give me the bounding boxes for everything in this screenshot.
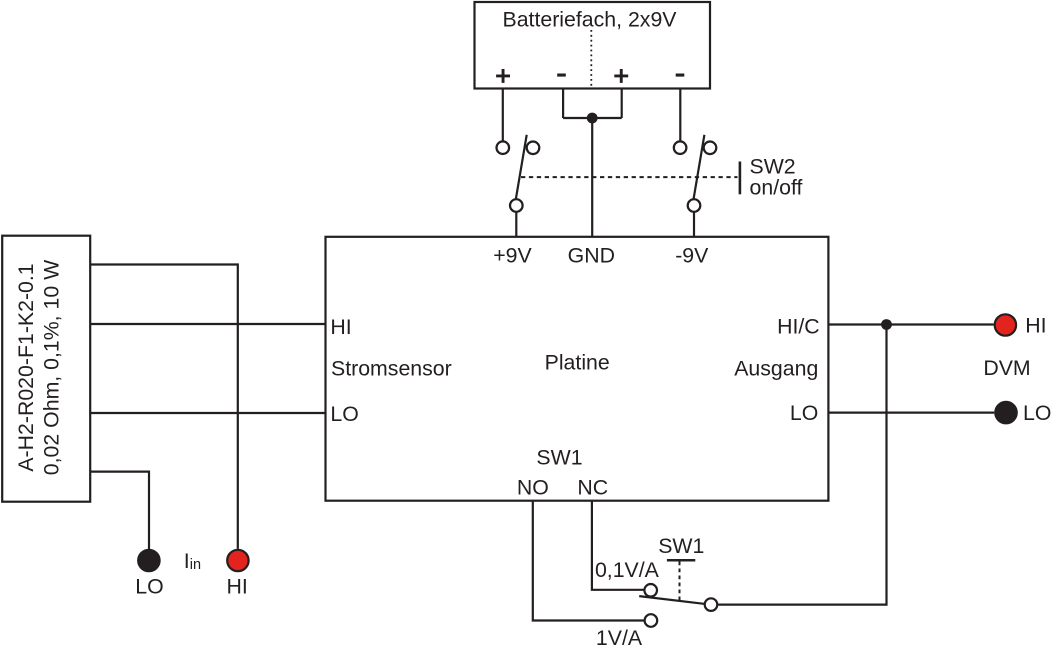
SW1 actuator bar <box>667 559 695 562</box>
wire resistor sense LO to Platine <box>90 412 325 414</box>
svg-text:NC: NC <box>577 475 608 499</box>
svg-text:LO: LO <box>135 574 163 598</box>
battery plus mark 1 <box>496 69 510 83</box>
svg-text:1V/A: 1V/A <box>596 626 643 647</box>
switch SW1 NO contact <box>645 614 658 627</box>
svg-text:SW1: SW1 <box>658 534 704 558</box>
svg-text:LO: LO <box>790 401 818 425</box>
svg-text:A-H2-R020-F1-K2-0.1: A-H2-R020-F1-K2-0.1 <box>14 263 38 471</box>
wire GND <box>591 118 593 237</box>
battery box Batteriefach <box>475 2 711 89</box>
svg-text:HI/C: HI/C <box>777 315 820 339</box>
SW2 linkage dashed line <box>521 176 738 178</box>
wire Platine NC pin down <box>592 501 645 590</box>
wire SW2 pole B to -9V pin <box>693 212 695 237</box>
svg-text:Batteriefach, 2x9V: Batteriefach, 2x9V <box>502 7 677 31</box>
wire battery +9V terminal <box>502 89 504 142</box>
svg-text:LO: LO <box>1023 401 1051 425</box>
switch SW1 common pivot <box>705 598 718 611</box>
SW2 actuator bar <box>739 162 742 195</box>
wire resistor current bottom <box>90 472 149 549</box>
terminal HI DVM red <box>995 314 1016 335</box>
svg-text:Iin: Iin <box>184 549 201 573</box>
svg-text:DVM: DVM <box>983 356 1030 380</box>
switch SW2 pole B pivot <box>688 199 701 212</box>
terminal LO input black <box>138 550 159 571</box>
wire Platine HI/C to DVM HI <box>828 323 993 325</box>
wire junction to SW1 common <box>718 325 886 605</box>
wire Platine LO to DVM LO <box>828 412 994 414</box>
svg-text:0,02 Ohm, 0,1%, 10 W: 0,02 Ohm, 0,1%, 10 W <box>39 259 63 475</box>
wire battery minus terminal 1 <box>562 89 564 119</box>
wire battery plus terminal 2 <box>621 89 623 119</box>
battery minus mark 1 <box>557 74 566 77</box>
battery divider dotted line <box>590 30 592 87</box>
switch SW2 pole A left contact <box>497 141 510 154</box>
switch SW2 pole B left contact <box>674 141 687 154</box>
switch SW2 pole A pivot <box>510 199 523 212</box>
svg-text:Stromsensor: Stromsensor <box>331 357 452 381</box>
svg-text:Ausgang: Ausgang <box>734 357 818 381</box>
svg-text:HI: HI <box>1025 314 1046 338</box>
battery plus mark 2 <box>614 69 628 83</box>
svg-text:-9V: -9V <box>675 244 709 268</box>
switch SW1 arm <box>639 596 704 604</box>
wire SW2 pole A to +9V pin <box>515 212 517 237</box>
wire resistor current top <box>90 265 238 549</box>
svg-text:HI: HI <box>226 574 247 598</box>
wire resistor sense HI to Platine <box>90 323 325 325</box>
svg-text:NO: NO <box>517 475 549 499</box>
svg-text:+9V: +9V <box>493 244 532 268</box>
wire battery center link <box>563 117 622 119</box>
Platine box <box>326 237 829 501</box>
terminal LO DVM black <box>995 402 1016 423</box>
terminal HI input red <box>227 550 248 571</box>
switch SW2 pole A arm <box>516 135 527 199</box>
svg-text:GND: GND <box>568 244 615 268</box>
svg-text:Platine: Platine <box>545 351 610 375</box>
svg-text:0,1V/A: 0,1V/A <box>595 558 660 582</box>
wire Platine NO pin down <box>533 501 645 621</box>
switch SW2 pole B arm <box>694 135 705 199</box>
svg-text:SW1: SW1 <box>536 445 582 469</box>
switch SW2 pole B right contact <box>704 142 717 155</box>
switch SW2 pole A right contact <box>527 142 540 155</box>
GND junction dot <box>587 113 598 124</box>
wire battery -9V terminal <box>679 89 681 142</box>
svg-text:LO: LO <box>330 402 358 426</box>
SW1 linkage dashed line <box>679 562 681 601</box>
switch SW1 NC contact <box>644 584 657 597</box>
battery minus mark 2 <box>676 74 685 77</box>
resistor box A-H2-R020 <box>2 236 90 502</box>
svg-text:on/off: on/off <box>750 176 803 200</box>
DVM junction dot <box>881 319 892 330</box>
svg-text:HI: HI <box>330 315 351 339</box>
